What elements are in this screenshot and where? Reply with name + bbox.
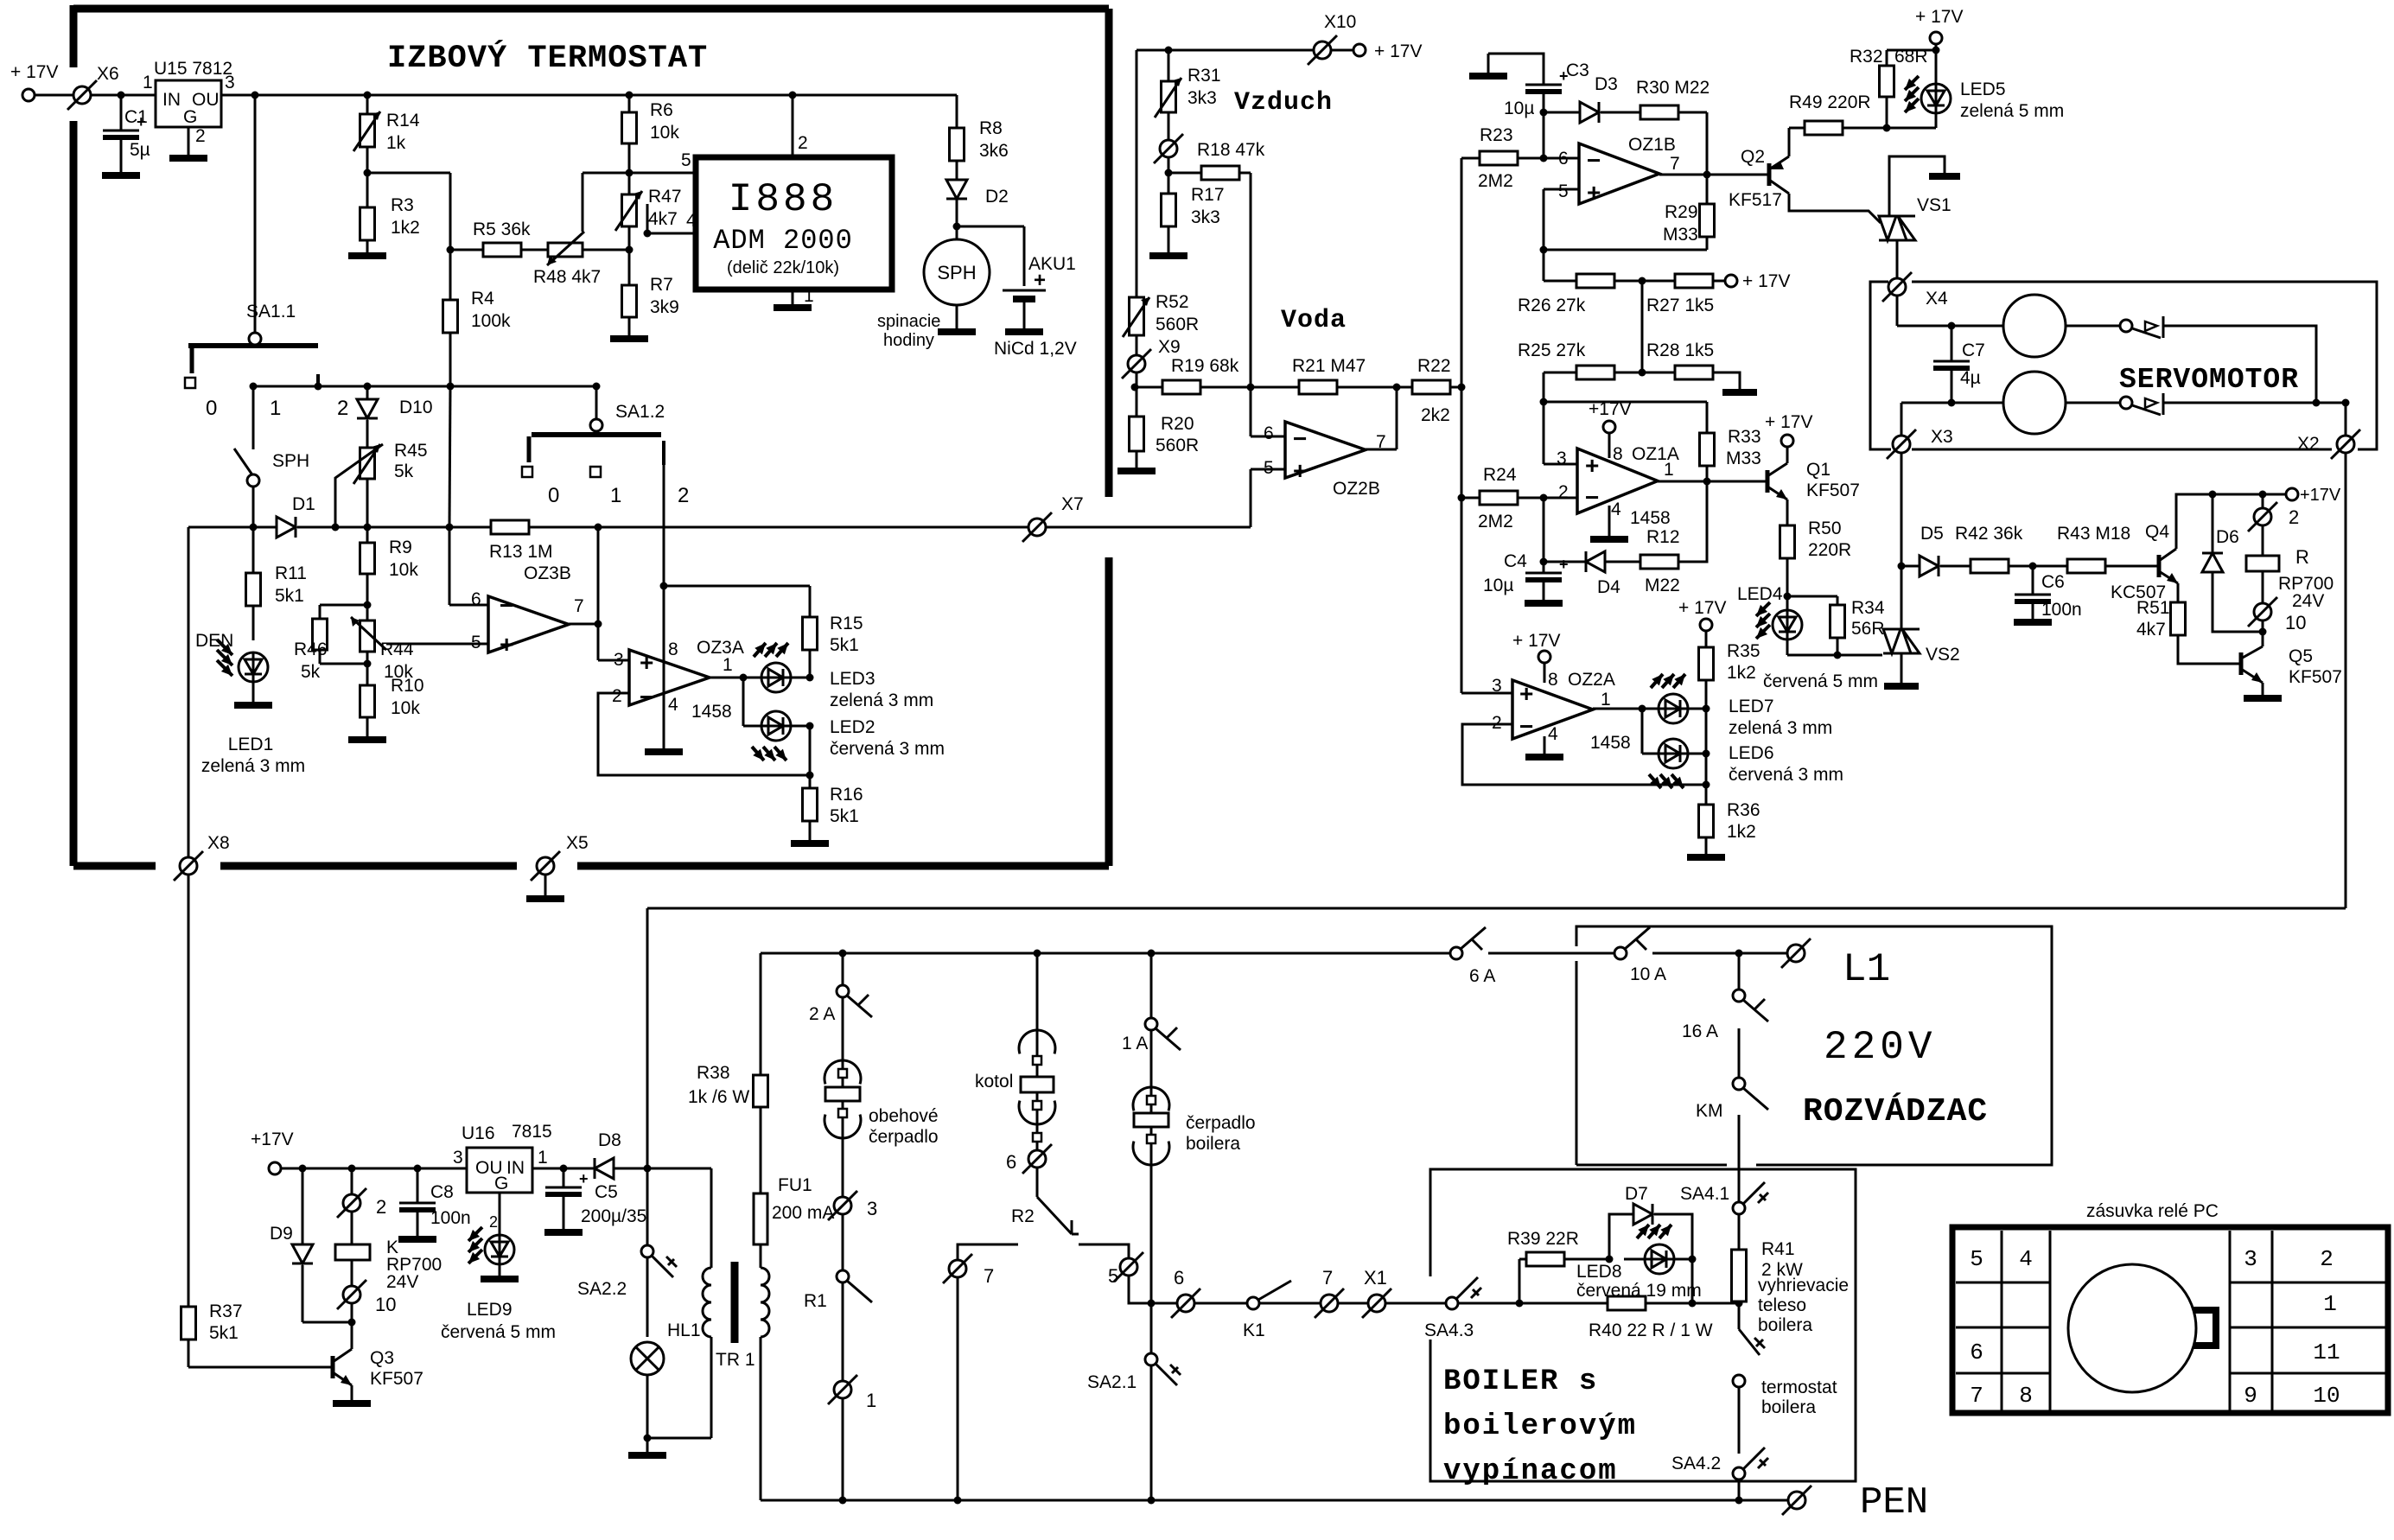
svg-text:M33: M33 (1663, 225, 1698, 245)
svg-text:8: 8 (1613, 444, 1623, 464)
svg-text:LED1: LED1 (228, 735, 274, 754)
svg-text:5k1: 5k1 (830, 806, 859, 826)
connector X1 (1368, 1295, 1385, 1312)
svg-text:220V: 220V (1824, 1025, 1936, 1070)
LED5 (1935, 50, 1938, 84)
resistor R30 (1640, 105, 1678, 119)
svg-text:5k1: 5k1 (209, 1323, 239, 1343)
wire secondary to bottom rail (760, 1337, 762, 1500)
svg-text:560R: 560R (1156, 315, 1199, 334)
wire (2163, 402, 2346, 404)
op-amp OZ1A (1577, 449, 1658, 513)
svg-text:10: 10 (375, 1294, 396, 1315)
svg-text:R20: R20 (1161, 414, 1194, 434)
svg-text:100k: 100k (471, 311, 511, 331)
relay R coil (2262, 494, 2264, 508)
svg-text:10k: 10k (650, 123, 679, 143)
svg-text:1: 1 (610, 484, 621, 507)
node (447, 246, 455, 254)
resistor R4 (443, 300, 458, 333)
relay K (351, 1168, 353, 1194)
wire pin5 (1250, 469, 1252, 527)
svg-text:spinacie: spinacie (877, 312, 940, 331)
regulator U16 7815 (467, 1148, 532, 1193)
resistor R38 (754, 1075, 768, 1107)
svg-text:Q4: Q4 (2145, 522, 2169, 542)
svg-text:LED8: LED8 (1576, 1262, 1622, 1282)
svg-text:TR 1: TR 1 (716, 1350, 755, 1370)
svg-text:2 A: 2 A (809, 1004, 835, 1024)
svg-text:R21 M47: R21 M47 (1292, 356, 1366, 376)
+17V rail relay (2176, 494, 2289, 549)
switch R1 (837, 1270, 849, 1282)
+17V terminal (1887, 49, 1936, 52)
svg-text:Voda: Voda (1281, 306, 1347, 335)
svg-text:K1: K1 (1243, 1320, 1265, 1340)
diode D7 (1609, 1214, 1633, 1259)
svg-text:4µ: 4µ (1960, 368, 1981, 388)
svg-text:200 mA: 200 mA (772, 1203, 834, 1223)
svg-text:−: − (640, 684, 653, 710)
diode D3 (1544, 111, 1580, 114)
svg-text:X7: X7 (1061, 494, 1084, 514)
svg-text:56R: 56R (1851, 619, 1885, 639)
resistor R36 (1705, 785, 1708, 805)
wire pin2 loop (1462, 724, 1706, 785)
wire pin8 column (663, 465, 665, 586)
pump cerpadlo boilera (1150, 1087, 1153, 1353)
svg-text:R23: R23 (1480, 125, 1513, 145)
svg-text:D9: D9 (270, 1224, 293, 1244)
resistor R22 (1412, 380, 1450, 394)
wire R44 wiper to OZ3B (386, 643, 488, 646)
diode D2 (956, 161, 958, 180)
svg-text:R11: R11 (275, 563, 307, 583)
resistor R14 (trimmer) (366, 95, 369, 114)
svg-text:R52: R52 (1156, 292, 1189, 312)
connector X2 (2345, 403, 2347, 436)
wire rail A (647, 907, 2346, 910)
diode D1 (277, 517, 296, 538)
svg-text:7: 7 (1970, 1383, 1983, 1409)
svg-text:R43 M18: R43 M18 (2057, 524, 2130, 544)
diode D9 zener (302, 1168, 304, 1244)
resistor R50 (1786, 500, 1789, 525)
node (118, 92, 125, 99)
svg-text:−: − (500, 592, 513, 619)
svg-text:X2: X2 (2297, 434, 2320, 454)
svg-text:220R: 220R (1808, 540, 1851, 560)
svg-text:LED5: LED5 (1960, 80, 2006, 99)
connector X4 (1888, 278, 1906, 296)
breaker 16A (1738, 953, 1741, 990)
resistor R17 (1162, 194, 1176, 226)
svg-text:1: 1 (2323, 1291, 2337, 1317)
svg-text:R49 220R: R49 220R (1789, 92, 1871, 112)
svg-text:6: 6 (1558, 149, 1569, 169)
svg-text:3: 3 (453, 1148, 463, 1168)
svg-text:0: 0 (206, 397, 217, 420)
resistor R3 (360, 207, 375, 240)
svg-text:+: + (1519, 680, 1533, 707)
svg-text:9: 9 (2244, 1383, 2257, 1409)
triac VS2 (1883, 629, 1901, 653)
connector X3 (1893, 436, 1910, 453)
terminal PEN (1788, 1492, 1805, 1509)
svg-text:SA2.2: SA2.2 (577, 1279, 627, 1299)
boiler box (1430, 1169, 1856, 1481)
svg-text:KF507: KF507 (370, 1369, 423, 1389)
svg-text:ROZVÁDZAC: ROZVÁDZAC (1803, 1091, 1988, 1130)
op-amp OZ2B (1285, 422, 1366, 478)
wire (35, 94, 156, 97)
connector 1 (834, 1381, 851, 1398)
svg-text:10µ: 10µ (1483, 576, 1513, 595)
connector X9 (1136, 335, 1138, 355)
svg-text:C7: C7 (1962, 340, 1985, 360)
svg-text:zelená 3 mm: zelená 3 mm (830, 690, 933, 710)
wire +12V rail (221, 94, 957, 97)
svg-text:SPH: SPH (272, 451, 309, 471)
svg-text:C8: C8 (430, 1182, 454, 1202)
svg-text:obehové: obehové (869, 1106, 939, 1126)
svg-text:+: + (1293, 457, 1307, 484)
svg-text:R37: R37 (209, 1301, 243, 1321)
switch termostat boilera (1738, 1303, 1741, 1329)
resistor R10 (360, 685, 375, 717)
svg-text:5k: 5k (301, 662, 321, 682)
svg-text:2M2: 2M2 (1478, 512, 1513, 531)
svg-text:R22: R22 (1417, 356, 1451, 376)
svg-text:zelená 5 mm: zelená 5 mm (1960, 101, 2064, 121)
svg-text:C5: C5 (595, 1182, 618, 1202)
svg-text:boilera: boilera (1761, 1397, 1816, 1417)
wire (532, 1168, 595, 1170)
LED9 (499, 1193, 501, 1235)
motor M2 (2003, 372, 2066, 434)
ground OZ3A (663, 586, 665, 748)
ground OZ2A (1544, 736, 1546, 754)
svg-text:R13 1M: R13 1M (489, 542, 553, 562)
svg-text:1k2: 1k2 (391, 218, 420, 238)
svg-text:R18 47k: R18 47k (1197, 140, 1265, 160)
svg-text:Q3: Q3 (370, 1348, 394, 1368)
wire lower motor row (1901, 403, 1903, 436)
svg-text:LED3: LED3 (830, 669, 875, 689)
svg-text:−: − (1587, 147, 1601, 174)
resistor R12 (1640, 555, 1678, 569)
svg-text:IN: IN (162, 90, 181, 110)
svg-text:R41: R41 (1761, 1239, 1795, 1259)
wire X10 row (1137, 49, 1322, 52)
svg-text:SA1.2: SA1.2 (615, 402, 665, 422)
svg-text:4k7: 4k7 (648, 209, 678, 229)
svg-text:200µ/35: 200µ/35 (581, 1206, 646, 1226)
resistor R39 (1519, 1259, 1521, 1303)
switch SA4.3 (1446, 1297, 1458, 1309)
svg-text:1: 1 (804, 286, 814, 306)
svg-text:+ 17V: + 17V (1765, 412, 1812, 432)
svg-text:10µ: 10µ (1504, 99, 1534, 118)
svg-text:10 A: 10 A (1630, 964, 1666, 984)
resistor R7 (622, 285, 637, 317)
capacitor C1 (120, 95, 123, 130)
svg-text:boilera: boilera (1186, 1134, 1240, 1154)
svg-text:kotol: kotol (975, 1072, 1013, 1091)
svg-text:boilerovým: boilerovým (1443, 1410, 1637, 1443)
connector 5 right throw (1120, 1258, 1137, 1276)
wire D1 row (188, 526, 277, 529)
resistor R23 (1461, 157, 1480, 160)
svg-text:R27 1k5: R27 1k5 (1646, 296, 1714, 315)
connector 6 kotol (1028, 1150, 1046, 1168)
connector X6 (73, 86, 91, 104)
wire output (1593, 708, 1659, 710)
svg-text:HL1: HL1 (667, 1320, 701, 1340)
resistor R20 (1130, 417, 1144, 451)
svg-text:SPH: SPH (937, 262, 976, 283)
resistor R26 (1543, 250, 1545, 281)
connector X5 (537, 857, 554, 875)
breaker 10A (1614, 947, 1627, 959)
wire row (1151, 1302, 1177, 1305)
LED8 (1624, 1258, 1645, 1261)
svg-text:6: 6 (1264, 423, 1274, 443)
svg-text:R26 27k: R26 27k (1518, 296, 1586, 315)
svg-text:1k /6 W: 1k /6 W (688, 1087, 749, 1107)
svg-text:R46: R46 (294, 640, 328, 659)
svg-text:3k3: 3k3 (1187, 88, 1217, 108)
svg-text:R34: R34 (1851, 598, 1885, 618)
+17V Q1 (1786, 447, 1789, 463)
switch R2 (1037, 1197, 1072, 1234)
diode D4 (1544, 561, 1586, 563)
diode D8 (595, 1158, 614, 1179)
svg-text:termostat: termostat (1761, 1378, 1837, 1397)
svg-text:6: 6 (471, 589, 481, 609)
svg-text:R19 68k: R19 68k (1171, 356, 1239, 376)
switch KM (1733, 1078, 1745, 1090)
diode D5 (1901, 565, 1920, 568)
svg-text:R31: R31 (1187, 66, 1221, 86)
wire output (1366, 449, 1397, 451)
svg-text:24V: 24V (2292, 591, 2324, 611)
resistor R15 (809, 586, 812, 617)
svg-text:−: − (1293, 425, 1307, 452)
svg-text:+: + (579, 1170, 589, 1187)
svg-text:5: 5 (471, 633, 481, 652)
svg-text:X3: X3 (1931, 427, 1953, 447)
svg-text:LED2: LED2 (830, 717, 875, 737)
svg-text:6: 6 (1174, 1267, 1184, 1289)
svg-text:R9: R9 (389, 538, 412, 557)
svg-text:M22: M22 (1645, 576, 1680, 595)
wire (2163, 326, 2316, 403)
svg-text:R30 M22: R30 M22 (1636, 78, 1710, 98)
resistor R48 (trimmer) (521, 249, 548, 251)
op-amp OZ1B (1579, 143, 1659, 204)
svg-text:D2: D2 (985, 187, 1009, 207)
pump obehove cerpadlo (842, 1060, 844, 1197)
svg-text:1458: 1458 (1630, 508, 1671, 528)
switch SA2.2 (646, 1168, 649, 1245)
svg-text:SA2.1: SA2.1 (1087, 1372, 1137, 1392)
svg-text:R47: R47 (648, 187, 682, 207)
LED6 (1641, 709, 1644, 754)
wire rail B (761, 952, 1450, 955)
motor M1 (2003, 295, 2066, 357)
resistor R45 (trimmer) (360, 448, 375, 479)
servomotor box (1870, 282, 1891, 449)
svg-text:7: 7 (574, 596, 584, 616)
svg-text:OZ3B: OZ3B (524, 563, 571, 583)
svg-text:IZBOVÝ TERMOSTAT: IZBOVÝ TERMOSTAT (387, 40, 708, 77)
svg-text:1k2: 1k2 (1727, 663, 1756, 683)
op-amp OZ3A (629, 650, 710, 705)
svg-text:OZ2A: OZ2A (1568, 670, 1615, 690)
transistor Q2 (1767, 163, 1772, 186)
capacitor C7 (1951, 326, 1953, 361)
svg-text:R6: R6 (650, 100, 673, 120)
svg-text:3k3: 3k3 (1191, 207, 1220, 227)
resistor R40 (1519, 1302, 1608, 1305)
svg-text:R29: R29 (1665, 202, 1698, 222)
svg-text:OZ3A: OZ3A (697, 638, 744, 658)
svg-text:1 A: 1 A (1122, 1034, 1148, 1053)
svg-text:2: 2 (489, 1213, 498, 1231)
fuse FU1 (760, 1244, 762, 1268)
svg-text:SA4.3: SA4.3 (1424, 1320, 1474, 1340)
capacitor C3 (1488, 54, 1544, 85)
resistor R35 (1699, 647, 1714, 680)
svg-text:C4: C4 (1504, 551, 1527, 571)
rozvadzac box (1576, 926, 2052, 1165)
svg-text:1k: 1k (386, 133, 406, 153)
transformer TR1 (710, 1168, 713, 1268)
wire row SA1.1 outputs (253, 385, 596, 388)
resistor R19 (1135, 386, 1162, 389)
svg-text:+: + (1585, 452, 1599, 479)
svg-text:5µ: 5µ (130, 140, 150, 160)
wire pin6 (1250, 387, 1252, 436)
switch SPH (252, 386, 255, 449)
svg-text:8: 8 (668, 640, 678, 659)
capacitor C5 (563, 1168, 565, 1187)
switch servo lower (2120, 397, 2132, 409)
breaker 2A (842, 953, 844, 985)
wire (367, 172, 450, 175)
svg-text:11: 11 (2313, 1340, 2340, 1365)
wire right feed down (2345, 453, 2347, 908)
svg-text:R7: R7 (650, 275, 673, 295)
svg-text:2M2: 2M2 (1478, 171, 1513, 191)
svg-text:zelená 3 mm: zelená 3 mm (201, 756, 305, 776)
svg-text:čerpadlo: čerpadlo (869, 1127, 939, 1147)
connector X7 (602, 526, 1028, 529)
transistor Q1 (1766, 470, 1770, 493)
svg-text:teleso: teleso (1758, 1295, 1806, 1315)
svg-text:5: 5 (1108, 1265, 1118, 1287)
svg-text:X8: X8 (207, 833, 230, 853)
wire (1250, 173, 1252, 436)
svg-text:červená 5 mm: červená 5 mm (441, 1322, 556, 1342)
svg-text:2k2: 2k2 (1421, 405, 1450, 425)
svg-text:čerpadlo: čerpadlo (1186, 1113, 1256, 1133)
capacitor C4 (1543, 498, 1545, 573)
LED7 (1659, 694, 1688, 723)
resistor R49 (1788, 128, 1791, 156)
svg-text:10: 10 (2313, 1383, 2340, 1409)
diode D10 (366, 386, 369, 399)
diode D6 (2212, 494, 2214, 553)
svg-text:R25 27k: R25 27k (1518, 340, 1586, 360)
svg-text:5: 5 (1558, 181, 1569, 201)
svg-text:LED9: LED9 (467, 1300, 513, 1320)
svg-text:boilera: boilera (1758, 1315, 1812, 1335)
svg-text:R2: R2 (1011, 1206, 1035, 1226)
svg-text:1: 1 (270, 397, 281, 420)
battery AKU1 (957, 226, 1024, 228)
wire pin2 loop (598, 693, 810, 775)
resistor R34 (1787, 595, 1837, 598)
svg-text:1458: 1458 (691, 702, 732, 722)
svg-text:SA4.2: SA4.2 (1671, 1454, 1721, 1473)
svg-text:10: 10 (2285, 612, 2306, 633)
svg-text:−: − (1585, 484, 1599, 511)
svg-text:R10: R10 (391, 676, 424, 696)
wire vertical main (1461, 158, 1463, 693)
svg-text:8: 8 (2019, 1383, 2033, 1409)
svg-text:R17: R17 (1191, 185, 1225, 205)
svg-text:5k1: 5k1 (275, 586, 304, 606)
resistor R28 (1675, 366, 1713, 379)
wire pin4 (646, 204, 649, 233)
breaker 1A (1145, 1018, 1157, 1030)
wire to X8 (188, 527, 190, 862)
svg-text:D5: D5 (1920, 524, 1944, 544)
svg-text:+: + (1587, 179, 1601, 206)
svg-text:OZ2B: OZ2B (1333, 479, 1380, 499)
wire (809, 726, 812, 775)
svg-text:3k9: 3k9 (650, 297, 679, 317)
connector inline (1168, 112, 1170, 140)
svg-text:VS1: VS1 (1917, 195, 1951, 215)
svg-text:D10: D10 (399, 398, 433, 417)
svg-text:+: + (1034, 269, 1046, 292)
resistor R29 (1706, 237, 1709, 250)
svg-text:+: + (640, 649, 653, 676)
svg-text:R4: R4 (471, 289, 494, 309)
svg-text:R36: R36 (1727, 800, 1760, 820)
svg-text:+: + (500, 631, 513, 658)
wire gate row (1787, 654, 1882, 657)
LED3 (761, 663, 791, 692)
svg-text:IN: IN (506, 1158, 525, 1178)
connector 7 (1321, 1295, 1338, 1312)
wire pin3 (1461, 692, 1512, 695)
wire pin5 feedback (1544, 188, 1579, 191)
svg-text:2: 2 (376, 1196, 386, 1218)
ground OZ1A (1608, 506, 1611, 536)
svg-text:R12: R12 (1646, 527, 1680, 547)
op-amp OZ3B (488, 596, 569, 652)
svg-text:5: 5 (1970, 1246, 1983, 1272)
resistor R31 (trimmer) (1168, 50, 1170, 81)
svg-text:3k6: 3k6 (979, 141, 1009, 161)
svg-text:I888: I888 (729, 177, 837, 222)
svg-text:G: G (494, 1174, 508, 1193)
svg-text:SERVOMOTOR: SERVOMOTOR (2119, 364, 2299, 396)
